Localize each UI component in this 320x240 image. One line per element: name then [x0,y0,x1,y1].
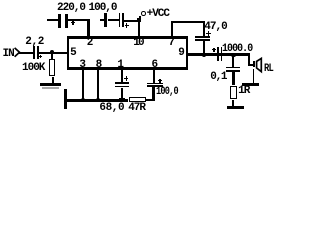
capacitor 100,0 right plate [122,13,124,27]
pin 1 label [117,60,123,71]
capacitor 47,0 top plate [195,36,210,38]
pin 6 label [152,60,158,71]
ground below 1R [227,106,244,109]
node rail pin 3 [81,98,85,102]
capacitor 68,0 value label [99,103,124,114]
capacitor 100,0 bottom bottom plate [147,85,163,87]
capacitor 220,0 left lead [47,19,58,21]
capacitor 100,0 plus mark [125,25,129,26]
wire junction to 0,1 [232,55,234,67]
wire IN to C-in [19,52,33,54]
resistor 100K label [22,63,44,74]
resistor 47R label [128,103,145,114]
capacitor 0,1 bottom plate [226,70,240,72]
wire speaker to ground [253,69,255,83]
capacitor 0,1 top plate [226,67,240,69]
node junction 47,0 on output [202,53,206,58]
resistor 100K box [49,59,55,76]
speaker RL label [264,64,273,75]
node input junction [50,50,54,54]
ground rail [67,99,128,102]
node junction Zobel/speaker [231,53,236,58]
capacitor 47,0 top lead [203,23,205,37]
wire C-in to pin 5 [39,52,67,54]
pin 5 label [70,48,76,59]
capacitor 1000,0 plus mark [212,49,216,50]
pin 10 label [133,38,143,49]
pin 3 label [79,60,85,71]
wire output jog to speaker [248,53,250,65]
wire pin 6 to 100,0 [153,70,155,82]
wire 68,0 to ground rail [121,88,123,100]
resistor 47R box [129,97,147,99]
wire pin 7 riser [171,23,173,37]
wire riser 100,0 bottom [152,87,154,101]
ground below speaker [242,83,259,86]
capacitor 220,0 right plate [65,14,68,28]
capacitor 47,0 bottom lead [203,41,205,53]
capacitor 2,2 plus mark [39,56,43,57]
wire VCC node to terminal [139,16,141,18]
capacitor 2,2 right plate [37,46,39,58]
node tick bar at 100,0 left [104,13,107,27]
wire 1R to ground [232,100,234,106]
wire pin 7 to bootstrap cap [171,21,205,23]
wire pin 3 to ground rail [82,70,84,99]
IN terminal label [3,49,14,60]
ground below 100K [40,83,60,87]
wire 220,0 to pin 2 [68,19,90,21]
node rail 68,0 junction [119,98,124,102]
IN terminal arrow [0,0,30,62]
wire 100,0 to VCC node [124,20,137,22]
speaker RL box [253,61,256,68]
wire riser into pin 2 [87,19,89,36]
capacitor 0,1 value label [210,72,226,83]
node rail pin 8 [96,98,100,102]
capacitor 2,2 left plate [33,46,35,58]
capacitor 100,0 bottom value label [156,87,178,98]
capacitor 47,0 plus mark [206,33,210,34]
IC U1 outline [67,36,189,38]
wire VCC node to pin 10 [138,22,140,36]
resistor 1R label [238,86,249,97]
wire node to 100K [51,54,53,59]
node VCC junction [137,18,142,22]
wire 47R to 100,0 bottom [146,99,154,101]
capacitor 100,0 left lead stub [100,19,105,21]
capacitor 68,0 plus mark [124,78,128,79]
+VCC label [147,9,169,20]
wire stub into speaker [250,64,253,66]
capacitor 2,2 value label [25,37,44,48]
wire pin 9 output line [188,53,250,55]
capacitor 220,0 left plate [58,14,61,28]
wire 0,1 to 1R [232,72,234,86]
capacitor 100,0 left plate [119,13,121,27]
capacitor 1000,0 left plate [217,47,219,60]
resistor 1R box [230,86,237,100]
capacitor 68,0 bottom plate [115,86,130,88]
wire pin 1 to 68,0 [121,70,123,82]
wire pin 8 to ground rail [97,70,99,99]
pin 7 label [168,38,174,49]
capacitor 220,0 plus mark [71,22,75,23]
pin 8 label [96,60,102,71]
capacitor 220,0 value label [57,3,85,14]
wire 100K to ground [52,77,54,83]
capacitor 47,0 value label [204,22,226,33]
pin 2 label [87,38,93,49]
capacitor 1000,0 value label [222,44,252,55]
ground bar left end [64,89,67,109]
pin 9 label [178,48,184,59]
capacitor 68,0 top plate [115,82,130,84]
capacitor 1000,0 right plate [221,47,223,60]
capacitor 100,0 bottom top plate [147,83,163,85]
capacitor 100,0 bottom plus mark [158,80,162,81]
capacitor 47,0 bottom plate [195,39,210,41]
speaker RL horn [254,56,264,74]
terminal +VCC circle [141,11,146,16]
capacitor 100,0 top value label [89,3,117,14]
wire tick bar to 100,0 [108,19,119,21]
